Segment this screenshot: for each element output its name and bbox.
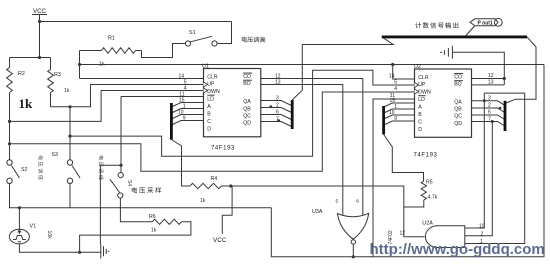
svg-text:4.7k: 4.7k (428, 195, 438, 201)
wire U1 bus to top bus (292, 37, 393, 100)
svg-text:A: A (207, 104, 211, 110)
wire U2 QD to U2A pin2 (465, 122, 493, 236)
svg-text:6: 6 (356, 198, 359, 203)
svg-text:U3A: U3A (312, 209, 323, 215)
bus entry U1 Q outputs (261, 100, 292, 129)
svg-text:6: 6 (276, 110, 279, 116)
junction dot R3-S3 branch (68, 105, 71, 108)
svg-text:BO: BO (454, 81, 462, 87)
wire U2 CLR branch (393, 65, 415, 80)
wire U2 LD to rail (373, 99, 415, 257)
svg-text:D: D (207, 126, 211, 132)
wire S3 bottom (69, 184, 71, 208)
port P out1 (466, 18, 502, 35)
svg-text:VCC: VCC (213, 237, 227, 244)
svg-text:U2: U2 (414, 64, 421, 70)
label 电压调高 (242, 37, 266, 43)
svg-text:1k: 1k (19, 96, 34, 111)
svg-text:U2A: U2A (422, 221, 433, 227)
junction dot U2 QB end (499, 107, 502, 110)
wire V1 bottom (19, 244, 100, 252)
wire V1 top lead (18, 208, 20, 230)
junction dot U2 QA (483, 99, 486, 102)
svg-text:10: 10 (479, 224, 485, 230)
svg-text:12: 12 (400, 231, 406, 237)
svg-text:2: 2 (276, 103, 279, 109)
svg-text:VCC: VCC (33, 8, 47, 15)
wire ground to U2 CO BO (452, 52, 504, 85)
svg-text:R3: R3 (54, 72, 61, 78)
switch S3 (52, 152, 81, 184)
svg-text:13: 13 (488, 80, 494, 86)
wire QA over-bus branch (465, 93, 525, 243)
svg-text:1k: 1k (64, 88, 70, 94)
svg-text:UP: UP (418, 82, 426, 88)
svg-text:13: 13 (275, 80, 281, 86)
svg-text:3: 3 (488, 96, 491, 102)
svg-text:A: A (418, 105, 422, 111)
svg-text:74F193: 74F193 (414, 152, 438, 158)
wire LD down to S4 (120, 97, 122, 173)
bus entry U2 ABCD (384, 103, 415, 134)
switch S4 (110, 173, 132, 199)
wire U2A pin10 stub (465, 227, 485, 229)
svg-text:V1: V1 (30, 224, 37, 230)
svg-text:QB: QB (243, 106, 251, 112)
wire U1 CLR (80, 78, 204, 80)
wire U1 BO to NOR (261, 85, 343, 217)
svg-text:LD: LD (207, 97, 214, 103)
bus 计数信号输出 (thick) (382, 35, 527, 38)
svg-text:B: B (207, 112, 211, 118)
wire R4 node to U2A out (231, 186, 404, 237)
svg-text:1k: 1k (200, 198, 206, 204)
svg-text:5: 5 (336, 198, 339, 203)
wire bus exit to R4 (171, 140, 190, 187)
junction dot R4 out (229, 184, 232, 187)
wire S1 right drop (217, 22, 231, 44)
svg-text:2: 2 (488, 103, 491, 109)
svg-text:C: C (418, 119, 422, 125)
junction dot CLR node (78, 63, 81, 66)
svg-text:B: B (418, 112, 422, 118)
ic U1 74F193 (202, 64, 261, 152)
ground (bottom) (101, 244, 110, 259)
wire U1 LD (121, 96, 204, 98)
wire U2 bus exit to R5 (384, 134, 424, 181)
svg-text:LD: LD (418, 97, 425, 103)
svg-text:5: 5 (394, 80, 397, 86)
junction dot U1 QB (269, 105, 272, 108)
wire S2 node to U2 DWN (10, 92, 415, 171)
wire U1 CO to NOR (261, 79, 363, 217)
pin numbers U2A (400, 224, 485, 246)
wire R3 node down to S3 (69, 107, 71, 160)
wire S2 bottom (10, 184, 272, 208)
svg-text:2: 2 (481, 232, 484, 238)
junction dot V1 top (18, 206, 21, 209)
svg-text:S2: S2 (21, 167, 27, 173)
svg-text:R4: R4 (211, 176, 218, 182)
svg-text:UP: UP (207, 82, 215, 88)
svg-text:R5: R5 (426, 180, 433, 186)
junction dot R2-S2 branch (8, 142, 11, 145)
switch S2 (7, 160, 28, 184)
wire R4 to VCC stub (222, 186, 232, 234)
svg-text:12: 12 (488, 73, 494, 79)
pin numbers U2 CO BO (488, 73, 494, 86)
wire S4 node to ground (100, 165, 121, 244)
svg-text:QD: QD (243, 121, 251, 127)
junction dot U2 CLR branch (391, 63, 394, 66)
svg-text:7: 7 (488, 116, 491, 122)
svg-text:http://www.go-gddq.com: http://www.go-gddq.com (370, 241, 545, 258)
svg-text:S1: S1 (189, 30, 196, 36)
label 电压采样 (132, 187, 161, 193)
power flag VCC (top) (32, 8, 47, 15)
wire S3 node to U2 UP (70, 70, 415, 156)
svg-text:6: 6 (488, 110, 491, 116)
svg-text:CO: CO (454, 74, 462, 80)
svg-text:S4: S4 (126, 180, 132, 186)
svg-text:3: 3 (276, 96, 279, 102)
pulse source V1 (9, 224, 36, 244)
wire U2A output pin12 (404, 236, 425, 238)
ic U2 74F193 (414, 64, 472, 158)
label 计数信号输出 (415, 22, 458, 28)
pin numbers U1 CO BO (275, 74, 281, 86)
svg-text:1k: 1k (151, 228, 157, 234)
nor gate U3A (312, 198, 369, 256)
pin numbers U1 Q (276, 96, 279, 123)
svg-text:P out1: P out1 (478, 20, 493, 26)
wire VCC horizontal rail y=21 (40, 21, 232, 23)
wire R1 left down to CLR node (79, 51, 81, 79)
wire U2 BO (472, 84, 505, 86)
junction dot S3 vertical (68, 135, 71, 138)
svg-text:S3: S3 (52, 152, 58, 158)
wire U2 CO (472, 78, 505, 80)
svg-text:DWN: DWN (207, 89, 220, 95)
svg-text:D: D (418, 127, 422, 133)
resistor R3 (48, 58, 61, 107)
svg-text:QD: QD (454, 121, 462, 127)
wire R2-R3 top bar (10, 57, 51, 59)
svg-text:R1: R1 (108, 36, 115, 42)
wire U1 DWN from R2 (10, 91, 204, 122)
junction dot V1 gnd branch (78, 251, 81, 254)
wire U2 QA to U2A pin10 (465, 93, 485, 228)
svg-text:74F193: 74F193 (211, 145, 235, 151)
resistor R6 (80, 198, 191, 252)
junction dot NOR out (352, 255, 355, 258)
svg-text:QB: QB (454, 107, 462, 113)
junction dot U2 CO (503, 77, 506, 80)
ground (top right) (440, 46, 453, 59)
svg-text:QA: QA (243, 99, 251, 105)
junction dot VCC rail (38, 20, 41, 23)
svg-text:C: C (207, 119, 211, 125)
resistor R1 (80, 36, 142, 54)
svg-text:U1: U1 (202, 64, 209, 70)
junction dot VCC to R2R3 (38, 56, 41, 59)
svg-text:CO: CO (243, 74, 251, 80)
svg-text:10k: 10k (46, 231, 52, 240)
resistor R5 (404, 180, 438, 208)
wire bottom rail (271, 65, 544, 257)
svg-text:QC: QC (243, 113, 251, 119)
wire VCC stem down (39, 15, 41, 58)
svg-text:CLR: CLR (418, 75, 429, 81)
node CLR long rail y=64 (80, 64, 545, 66)
wire U1 UP from R3 (51, 85, 204, 107)
wire S1 left to R1 jog (142, 44, 186, 58)
bus entry U1 ABCD (171, 103, 203, 140)
bus entry U2 Q outputs (472, 101, 506, 131)
switch S1 (185, 30, 217, 46)
label 电压调低 (S3, rotated) (99, 156, 104, 180)
resistor R4 (190, 176, 231, 204)
pin numbers U2 Q (488, 96, 491, 123)
wire bus right to U2 bus (506, 37, 536, 103)
resistor R2 (7, 58, 25, 163)
junction dot U1 QD (277, 119, 280, 122)
pin numbers U1 left (178, 74, 187, 122)
svg-text:CLR: CLR (207, 75, 218, 81)
svg-text:R6: R6 (149, 214, 156, 220)
svg-text:DWN: DWN (418, 89, 431, 95)
label 电压调低 (S2, rotated) (38, 156, 43, 180)
junction dot R2-DWN (8, 120, 11, 123)
svg-text:R2: R2 (18, 71, 25, 77)
svg-text:QC: QC (454, 114, 462, 120)
pin numbers U2 left (389, 74, 397, 123)
and gate U2A (mirrored) (422, 221, 465, 248)
junction dot U2 QD (491, 120, 494, 123)
svg-text:QA: QA (454, 99, 462, 105)
svg-text:BO: BO (243, 81, 251, 87)
svg-text:4: 4 (394, 86, 397, 92)
junction dot S4 gnd branch (119, 164, 122, 167)
